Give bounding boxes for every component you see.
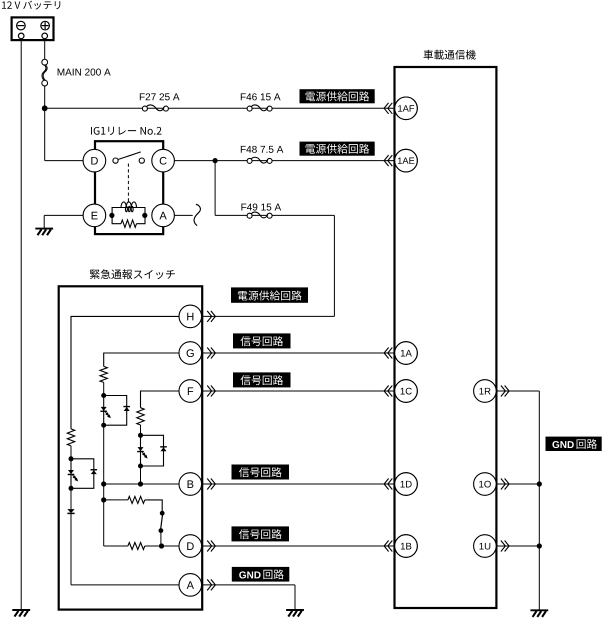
fuse F48 7.5 A: [247, 157, 272, 163]
label IG1 relay No.2: [91, 127, 161, 135]
emergency report switch box: [59, 286, 203, 609]
wire G branch to B row: [103, 425, 105, 484]
terminal G: [179, 342, 202, 365]
relay terminal C: [152, 149, 175, 172]
connector chevron A: [207, 579, 215, 590]
label box signal circuit F: [233, 372, 291, 387]
ground A line: [286, 610, 304, 617]
junction below C: [213, 158, 218, 163]
wire junction down to relay D: [44, 108, 46, 160]
connector chevron 1D: [384, 479, 392, 490]
fuse F49 15 A: [247, 212, 272, 218]
wire F to 1C: [202, 390, 395, 392]
connector chevron G: [207, 348, 215, 359]
junction G branch at B row: [101, 481, 106, 486]
terminal 1AF: [395, 97, 418, 120]
wire 1R right: [496, 390, 539, 392]
wire switch to D row: [160, 531, 162, 546]
terminal B: [179, 473, 202, 496]
battery plus post: [42, 33, 48, 39]
wire F49 corner down: [333, 215, 335, 316]
LED pair H branch: [68, 456, 97, 491]
wire G to 1A: [202, 352, 395, 354]
wire to relay D: [45, 160, 84, 162]
wire A ground drop: [294, 585, 296, 610]
junction gnd bus 1U: [537, 543, 542, 548]
relay coil box: [112, 208, 145, 224]
relay IG1 No.2 box: [95, 141, 163, 234]
wire B row: [104, 483, 179, 485]
connector chevron 1AE: [384, 155, 392, 166]
switch SW contacts and blade: [159, 511, 165, 533]
fusible link MAIN 200 A: [42, 59, 48, 86]
relay switch blade: [118, 152, 141, 160]
label box signal circuit B: [232, 465, 290, 480]
label on-board communication unit: [424, 50, 476, 60]
connector chevron 1R: [501, 386, 509, 397]
wire 1U right: [496, 545, 539, 547]
terminal 1A circle over border: [395, 342, 418, 365]
relay coil inductor L: [121, 202, 137, 212]
label box GND circuit A: [232, 567, 289, 582]
terminal 1A: [395, 342, 418, 365]
label 12V battery: [2, 1, 60, 10]
on-board communication unit box: [395, 67, 497, 608]
terminal H: [179, 305, 202, 328]
terminal 1R: [474, 380, 497, 403]
wire G branch top: [104, 353, 179, 366]
resistor G branch: [100, 366, 107, 382]
connector chevron 1O: [501, 479, 509, 490]
wire D to 1B: [202, 545, 395, 547]
label box power supply circuit 2: [300, 142, 375, 156]
wire H branch to diode: [70, 488, 72, 509]
resistor R lower: [128, 543, 145, 550]
relay actuation dashed line: [127, 164, 129, 202]
relay switch contact left: [113, 158, 118, 163]
wire H branch mid: [70, 446, 72, 459]
junction relay coil right: [142, 213, 147, 218]
connector chevron 1C: [384, 386, 392, 397]
fuse F46 15 A: [247, 105, 272, 111]
battery B1 case: [12, 17, 54, 40]
label F27 25 A: [140, 93, 180, 100]
label F48 7.5 A: [241, 146, 284, 153]
terminal 1C: [395, 380, 418, 403]
terminal D: [179, 535, 202, 558]
connector chevron B: [207, 479, 215, 490]
label box GND circuit right: [546, 437, 602, 451]
LED pair F branch: [137, 433, 167, 469]
fuse F27 25 A: [142, 105, 168, 111]
wire right ground bus: [538, 391, 540, 610]
wire F branch to B row: [140, 466, 142, 484]
label box signal circuit D: [232, 526, 290, 541]
terminal 1AE circle over border: [395, 149, 418, 172]
wire A to break: [174, 214, 192, 216]
junction gnd bus 1O: [537, 481, 542, 486]
junction switch at D row: [159, 543, 164, 548]
wire E to ground: [44, 214, 83, 216]
connector chevron F: [207, 386, 215, 397]
terminal 1D: [395, 473, 418, 496]
wire A to ground: [202, 584, 295, 586]
wire E ground drop: [43, 215, 45, 228]
wire 1O right: [496, 483, 539, 485]
wire G branch to D row: [103, 500, 105, 546]
relay terminal A: [152, 204, 175, 227]
relay terminal D: [83, 149, 106, 172]
wire C to junction: [174, 160, 215, 162]
connector chevron 1U: [501, 541, 509, 552]
wire G branch mid: [103, 382, 105, 395]
resistor H branch: [67, 429, 74, 446]
connector chevron 1B: [384, 541, 392, 552]
wire resistor to switch: [145, 500, 162, 512]
label emergency report switch: [90, 269, 175, 279]
wire tap row: [104, 499, 128, 501]
wire H to corner: [202, 315, 335, 317]
diode H branch: [67, 509, 74, 513]
junction battery feed: [42, 105, 48, 111]
wire battery minus to ground: [20, 39, 22, 610]
terminal 1B: [395, 535, 418, 558]
terminal 1U: [474, 535, 497, 558]
label F49 15 A: [241, 204, 281, 211]
resistor F branch: [137, 408, 144, 425]
wire D row right: [145, 545, 179, 547]
wire junction drop: [214, 161, 216, 216]
break symbol (to other circuit): [194, 204, 200, 225]
LED pair G branch: [100, 393, 130, 428]
connector chevron D: [207, 541, 215, 552]
junction relay coil left: [109, 213, 114, 218]
terminal 1AF circle over border: [395, 97, 418, 120]
ground relay E: [35, 229, 53, 236]
wire B to 1D: [202, 483, 395, 485]
junction G branch tap: [101, 497, 106, 502]
battery minus post: [18, 33, 24, 39]
relay coil resistor: [121, 220, 137, 227]
label box signal circuit G: [233, 333, 291, 348]
wire F branch top: [141, 391, 180, 408]
label F46 15 A: [241, 93, 281, 100]
wire row F27/F46: [45, 107, 395, 109]
wire to A terminal: [71, 584, 179, 586]
terminal F: [179, 380, 202, 403]
terminal 1D circle over border: [395, 473, 418, 496]
wire H branch top: [71, 316, 179, 429]
battery plus terminal symbol: [41, 21, 50, 30]
wire junction to 1AE: [215, 160, 394, 162]
terminal 1AE: [395, 149, 418, 172]
label box power supply circuit 1: [300, 89, 375, 103]
relay terminal E: [83, 204, 106, 227]
label box power supply circuit 3: [231, 287, 308, 302]
wire F49 row: [215, 214, 334, 216]
junction F branch at B row: [138, 481, 143, 486]
wire D row left: [104, 545, 128, 547]
wire G branch to tap: [103, 484, 105, 500]
label MAIN 200 A: [58, 69, 111, 76]
ground battery minus: [12, 610, 30, 617]
terminal 1O: [474, 473, 497, 496]
wire F branch mid: [140, 425, 142, 435]
wire battery plus to fusible link: [44, 39, 46, 60]
wire H branch bottom: [70, 513, 72, 585]
ground right bus: [530, 610, 548, 617]
connector chevron 1A: [384, 348, 392, 359]
connector chevron H: [207, 311, 215, 322]
wire fusible link to junction: [44, 86, 46, 108]
terminal 1B circle over border: [395, 535, 418, 558]
battery minus terminal symbol: [17, 21, 26, 30]
terminal 1C circle over border: [395, 380, 418, 403]
connector chevron 1AF: [384, 103, 392, 114]
relay switch contact right: [139, 158, 144, 163]
terminal A: [179, 574, 202, 597]
resistor R upper: [128, 496, 145, 503]
